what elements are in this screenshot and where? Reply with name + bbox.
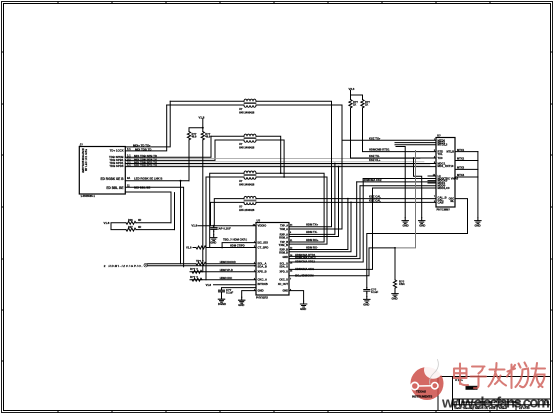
- svg-text:9A: 9A: [127, 176, 130, 180]
- capacitor C osc: [364, 288, 370, 294]
- watermark char you: [531, 363, 546, 387]
- resistor R row A: [192, 270, 202, 273]
- svg-text:U?: U?: [437, 134, 441, 138]
- resistor R bias: [393, 280, 396, 288]
- svg-text:1K: 1K: [365, 103, 368, 107]
- resistor R pull B: [361, 100, 364, 108]
- svg-text:TXL: TXL: [438, 152, 444, 156]
- svg-text:V1.8: V1.8: [191, 224, 197, 228]
- svg-text:MT1,B: MT1,B: [447, 151, 455, 154]
- svg-text:HDM RX-: HDM RX-: [306, 245, 318, 249]
- svg-text:V3.3: V3.3: [349, 87, 355, 91]
- wire OSC loop: [367, 199, 468, 288]
- svg-text:U?: U?: [239, 205, 243, 209]
- ground U3 right: [300, 301, 306, 307]
- IC U3 right pin numbers: [290, 223, 293, 291]
- wire control row to U2 b: [360, 185, 436, 187]
- svg-text:0R: 0R: [138, 218, 141, 222]
- title block frame: [438, 377, 551, 411]
- svg-text:HDMCMB RTD1: HDMCMB RTD1: [369, 148, 390, 152]
- svg-text:I2C_HDMCOM: I2C_HDMCOM: [295, 273, 314, 277]
- wire V3.3 rail down: [351, 90, 363, 99]
- svg-text:V1.8: V1.8: [206, 283, 212, 287]
- wire ground hanger B: [414, 158, 422, 218]
- svg-text:GND: GND: [475, 224, 481, 228]
- wire T2 right pair down to T3: [256, 136, 284, 177]
- svg-text:HDMCMA VP12: HDMCMA VP12: [295, 260, 315, 264]
- wire V1.8 rail down: [189, 119, 203, 132]
- resistor R right 49.9: [201, 132, 204, 140]
- svg-text:TXM_A: TXM_A: [280, 228, 289, 231]
- wire LED row to pullup junction: [125, 181, 189, 264]
- svg-text:U?: U?: [239, 107, 243, 111]
- svg-text:MTD2,3: MTD2,3: [438, 143, 448, 147]
- junction dots T2-T3 link: [280, 172, 282, 174]
- svg-text:TX0: TX0: [438, 156, 444, 160]
- svg-text:KSZ CAL: KSZ CAL: [369, 199, 381, 203]
- svg-text:KSZ TX-: KSZ TX-: [369, 154, 380, 158]
- svg-text:HDM RX+: HDM RX+: [306, 238, 319, 242]
- ground U3 left: [239, 297, 245, 303]
- ground hanger A: [402, 218, 408, 224]
- svg-text:H45 2406428: H45 2406428: [239, 110, 255, 114]
- resistor R shield B: [126, 228, 136, 231]
- wire gray shadow rows: [125, 159, 430, 165]
- svg-text:0R: 0R: [138, 225, 141, 229]
- resistor R left 49.9: [187, 132, 190, 140]
- wire LED2 row down to port: [125, 187, 183, 266]
- wire U3 control row1: [289, 182, 357, 257]
- svg-text:MDD1,C0: MDD1,C0: [438, 186, 451, 190]
- svg-text:RXM_B: RXM_B: [279, 252, 288, 255]
- svg-text:ML: ML: [450, 200, 454, 203]
- svg-text:GND: GND: [392, 297, 398, 301]
- svg-text:KSZ CAL: KSZ CAL: [369, 195, 381, 199]
- wire pair4 risers from T4 run: [289, 199, 351, 252]
- wire connector row1 lower to T1 bottom: [125, 105, 166, 151]
- svg-text:MTX3: MTX3: [457, 166, 465, 170]
- wire ground hanger A: [396, 147, 405, 218]
- wire T2 left pair: [211, 136, 244, 140]
- svg-text:1K: 1K: [353, 103, 356, 107]
- wire rbias to ground: [394, 288, 396, 290]
- wire shield row down to termination: [125, 192, 174, 230]
- svg-text:HDM DIO/CD: HDM DIO/CD: [220, 260, 236, 264]
- svg-text:RXM_A: RXM_A: [279, 236, 288, 239]
- svg-text:H45 2406428: H45 2406428: [239, 146, 255, 150]
- wire U3 I2C row: [289, 248, 395, 276]
- wire pullup loop to U3: [222, 243, 256, 248]
- svg-text:KSZ CL+: KSZ CL+: [369, 158, 381, 162]
- wire ctpd row: [193, 247, 256, 249]
- IC U2 stub wires short pins: [395, 143, 436, 183]
- svg-text:HDM TX-: HDM TX-: [306, 230, 318, 234]
- transformer T2: [244, 134, 256, 142]
- svg-text:GND: GND: [238, 303, 244, 307]
- wire row B to U3: [190, 279, 256, 281]
- wire R left bottom to LED row: [188, 140, 190, 181]
- watermark char shao: [507, 363, 528, 389]
- transformer T1: [244, 99, 256, 107]
- svg-text:MTX4: MTX4: [457, 173, 465, 177]
- wire control row to U2 d: [373, 187, 437, 189]
- ground cap2: [218, 296, 224, 302]
- wire port bus upper: [148, 263, 256, 265]
- wire MTX4: [455, 176, 478, 178]
- svg-text:H45 2406428: H45 2406428: [239, 183, 255, 187]
- svg-text:R06: R06: [128, 218, 133, 222]
- wire T4 left pair: [211, 199, 245, 226]
- wire R pull B bottom to U2 pin: [363, 108, 437, 152]
- svg-text:MD1_RXT10: MD1_RXT10: [438, 164, 454, 168]
- svg-text:W/ LED 1X1 GBE: W/ LED 1X1 GBE: [85, 149, 88, 171]
- wire cap osc to ground: [366, 293, 368, 296]
- IC U2 body: [436, 138, 455, 208]
- svg-text:HDM VP-D: HDM VP-D: [220, 268, 233, 272]
- title block DCMB black box: [466, 386, 478, 390]
- resistor R shield A: [126, 221, 136, 224]
- svg-text:TBD_? HDM CKR |: TBD_? HDM CKR |: [223, 238, 247, 242]
- transformer T4: [244, 196, 256, 204]
- svg-text:GND: GND: [258, 289, 264, 293]
- svg-text:CAP 0.1UF: CAP 0.1UF: [217, 226, 231, 230]
- svg-text:MTX2: MTX2: [457, 157, 465, 161]
- svg-text:U?: U?: [257, 219, 261, 223]
- watermark logo circle: [411, 359, 444, 400]
- svg-text:U?: U?: [239, 179, 243, 183]
- svg-text:GND: GND: [210, 241, 216, 245]
- wire V1.8 int to U3: [214, 284, 257, 286]
- wire cap to ground: [213, 231, 215, 234]
- svg-text:GND: GND: [282, 256, 288, 259]
- svg-text:CAB: CAB: [438, 201, 444, 205]
- svg-text:SDA_B: SDA_B: [258, 265, 267, 269]
- capacitor C bypass VDDIO: [211, 226, 217, 232]
- svg-text:PHYCMM?: PHYCMM?: [437, 208, 451, 212]
- junction dots T4 risers: [347, 198, 349, 200]
- wire MTX3: [455, 168, 478, 170]
- resistor R pull A: [349, 100, 352, 108]
- wire V1.8 to termination resistors: [111, 223, 126, 230]
- wire MTX2: [455, 160, 478, 162]
- capacitor C bypass 2: [219, 288, 225, 294]
- wire U3 left GND down: [242, 291, 256, 298]
- wire T3 right pair to pair3 risers: [256, 173, 327, 244]
- svg-text:V1.8: V1.8: [104, 221, 110, 225]
- svg-text:HDMCMA CKC: HDMCMA CKC: [295, 267, 314, 271]
- svg-text:VDDIO: VDDIO: [258, 224, 268, 228]
- wire U3 control row2: [289, 186, 360, 259]
- ground cap osc: [364, 296, 370, 302]
- svg-text:R07: R07: [128, 225, 133, 229]
- svg-text:XPD_O: XPD_O: [280, 271, 289, 274]
- svg-text:R?? ?: R?? ?: [190, 275, 198, 279]
- junction dot VDDIO cap: [213, 225, 215, 227]
- svg-text:HDMCMA CAC2: HDMCMA CAC2: [295, 256, 316, 260]
- svg-text:GND: GND: [419, 224, 425, 228]
- svg-text:XPD_B: XPD_B: [258, 270, 267, 274]
- wire U3 control row3: [289, 179, 363, 263]
- wire T1 left pair: [167, 101, 244, 105]
- wire U2 KSZ TX+ row from T1 riser: [342, 139, 436, 141]
- port circle: [144, 263, 148, 267]
- svg-text:V1.8: V1.8: [186, 246, 192, 250]
- wire connector row1 upper to T1 top: [125, 101, 170, 147]
- wire connector row3 to T2 bottom: [125, 140, 215, 160]
- watermark char fa: [489, 363, 507, 387]
- IC U3 left pin names: [258, 224, 269, 293]
- wire connector row4 to U2: [125, 163, 436, 165]
- svg-text:GND: GND: [363, 302, 369, 306]
- svg-text:49.9: 49.9: [205, 135, 211, 139]
- svg-text:R?? ?: R?? ?: [190, 267, 198, 271]
- watermark char dian: [454, 364, 468, 386]
- junction dot LED row: [180, 180, 182, 182]
- connector J1 body: [79, 147, 125, 195]
- svg-text:GND: GND: [403, 224, 409, 228]
- svg-text:HDM TX+: HDM TX+: [306, 223, 319, 227]
- svg-text:HDM CT/PD: HDM CT/PD: [230, 244, 245, 248]
- svg-text:GND: GND: [282, 290, 288, 293]
- junction dots pair2 taps: [334, 163, 336, 165]
- svg-text:MTX1: MTX1: [457, 148, 465, 152]
- wire U3 control row4: [289, 188, 373, 269]
- svg-text:0.1uF: 0.1uF: [226, 290, 234, 294]
- svg-text:TP? ?: TP? ?: [196, 259, 204, 263]
- ground hanger B: [419, 218, 425, 224]
- svg-text:CN4: CN4: [399, 282, 405, 286]
- svg-text:1:1: 1:1: [127, 147, 131, 151]
- junction dot rbias: [394, 247, 396, 249]
- svg-text:SDA_O: SDA_O: [279, 266, 288, 269]
- svg-text:H45 2406428: H45 2406428: [239, 208, 255, 212]
- svg-text:HDM CKC: HDM CKC: [220, 276, 233, 280]
- IC U3 left pin numbers: [253, 224, 256, 291]
- wire T4 right pair long run to U2: [256, 199, 436, 203]
- svg-text:U?: U?: [239, 142, 243, 146]
- IC U2 left pin numbers: [433, 139, 436, 203]
- svg-text:CKC_O: CKC_O: [279, 279, 288, 282]
- ground MTX: [475, 218, 481, 224]
- svg-text:I2C_SDI: I2C_SDI: [258, 241, 269, 245]
- wire shield B to riser: [136, 229, 175, 231]
- IC U3 right pin names: [278, 225, 289, 293]
- junction dot hanger B: [413, 157, 415, 159]
- svg-text:www.elecfans.com: www.elecfans.com: [441, 395, 550, 412]
- svg-text:49.9: 49.9: [192, 135, 198, 139]
- wire pair2 risers tapping MDI rows: [289, 164, 339, 237]
- wire resistor rbias top: [394, 248, 396, 280]
- resistor R row B: [192, 278, 202, 281]
- wire VDDIO row: [198, 225, 256, 227]
- wire gray return net: [395, 151, 416, 248]
- resistor R ctpd: [196, 246, 206, 249]
- wire MTX ground riser: [477, 152, 479, 218]
- IC U2 left pin names: [438, 138, 459, 204]
- svg-text:KSZ TX+: KSZ TX+: [369, 136, 381, 140]
- wire cap2 to ground: [221, 294, 223, 296]
- svg-text:TEXAS: TEXAS: [416, 390, 426, 394]
- wire control row to U2 c: [363, 178, 436, 180]
- wire port bus lower: [148, 265, 256, 267]
- svg-text:ED RGBK SE B: ED RGBK SE B: [100, 177, 124, 181]
- svg-text:TDB SPD5: TDB SPD5: [109, 164, 123, 168]
- svg-text:XC_OUT: XC_OUT: [278, 283, 289, 286]
- ground VDDIO cap: [211, 235, 217, 241]
- svg-text:V1.8: V1.8: [199, 115, 205, 119]
- svg-text:HDMI-I2C/GPIO.: HDMI-I2C/GPIO.: [109, 264, 143, 268]
- wire U3 pin 287 to cap: [222, 287, 257, 290]
- wire connector row5 to U2: [125, 166, 436, 168]
- wire T3 left pair: [206, 173, 244, 280]
- wire T1 right pair to pair1 risers: [256, 101, 342, 229]
- junction dot V1.8 tee: [202, 127, 204, 129]
- svg-text:TD+ 1CCX: TD+ 1CCX: [110, 148, 124, 152]
- svg-text:PHY32RX: PHY32RX: [256, 295, 268, 299]
- svg-text:TXM_B: TXM_B: [279, 243, 288, 247]
- IC U3 body: [256, 223, 289, 296]
- watermark char zi: [471, 367, 487, 389]
- svg-text:1-5555565-1: 1-5555565-1: [81, 194, 96, 198]
- wire R right bottom down to HDM row: [202, 140, 204, 272]
- svg-text:INTRXB: INTRXB: [258, 282, 268, 286]
- IC U2 right pin names: [447, 151, 455, 204]
- ground rbias: [392, 291, 398, 297]
- wire U3 right GND down: [289, 291, 304, 301]
- svg-text:ED BBL BE: ED BBL BE: [106, 186, 123, 190]
- svg-text:0.1uF: 0.1uF: [371, 290, 379, 294]
- svg-text:LED RGBK SE LNK B: LED RGBK SE LNK B: [134, 177, 162, 181]
- junction dot pullup loop: [221, 247, 223, 249]
- svg-text:INSTRUMENTS: INSTRUMENTS: [412, 395, 432, 399]
- wire MTX1 to ground riser: [455, 151, 478, 153]
- svg-text:CKC_A: CKC_A: [258, 278, 267, 282]
- wire row A to U3: [190, 271, 256, 273]
- svg-text:CT_SPD: CT_SPD: [258, 245, 269, 249]
- wire R pull A bottom to U2 pin: [351, 108, 437, 158]
- svg-text:GND: GND: [300, 307, 306, 311]
- svg-text:J?: J?: [80, 143, 84, 147]
- wire control row CK2 to U2: [357, 181, 436, 183]
- resistor R port series: [196, 262, 206, 265]
- svg-text:DGND: DGND: [218, 302, 226, 306]
- transformer T3: [244, 171, 256, 179]
- wire shield A to riser: [136, 222, 171, 224]
- wire connector row2 to T2 top: [125, 136, 211, 157]
